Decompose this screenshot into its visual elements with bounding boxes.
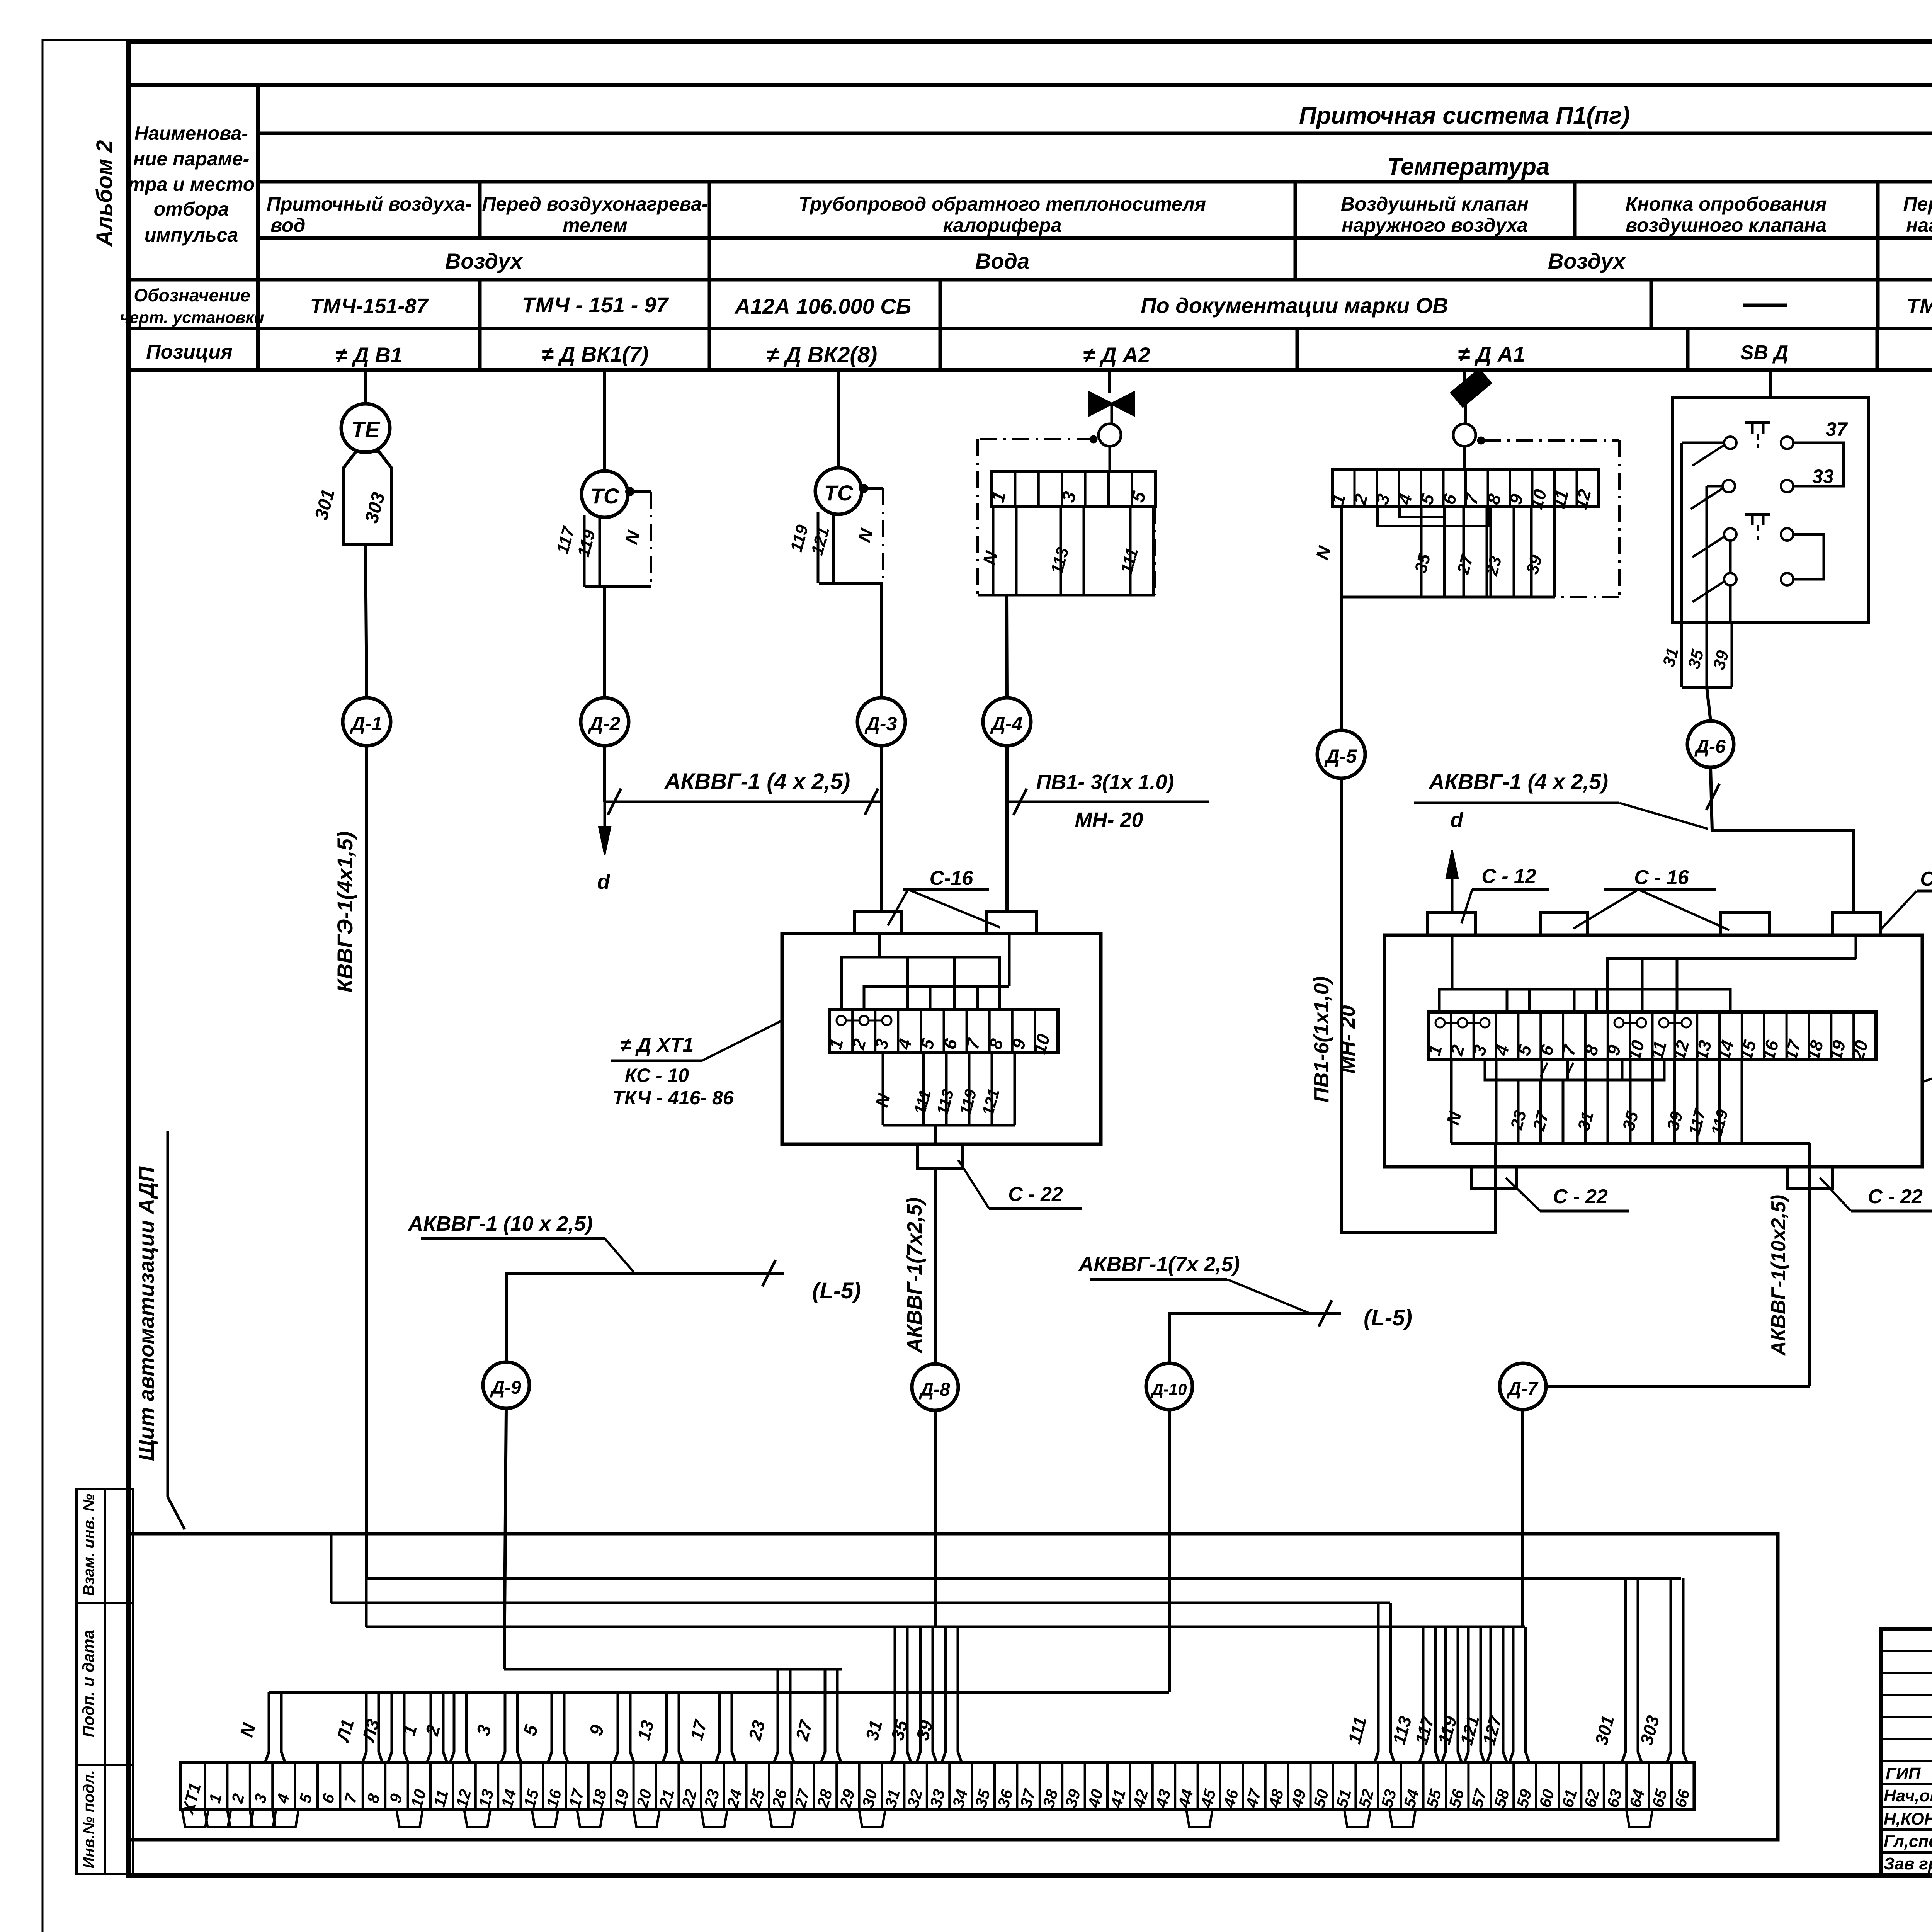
svg-text:Температура: Температура xyxy=(1387,153,1550,180)
XT2 bottom comb xyxy=(1451,1142,1810,1145)
A1 channel 27 xyxy=(1463,507,1465,597)
svg-text:Воздух: Воздух xyxy=(1548,249,1626,273)
TC1 N dash-dot wire xyxy=(633,490,651,493)
panel channel 17 xyxy=(718,1692,721,1752)
wire D-5 to XT2 route xyxy=(1341,778,1495,1233)
A2 bottom connector xyxy=(978,594,1155,597)
svg-text:ТКЧ - 416- 86: ТКЧ - 416- 86 xyxy=(612,1087,734,1109)
wire D-10 down xyxy=(1168,1410,1171,1692)
svg-text:Д-8: Д-8 xyxy=(918,1379,950,1400)
circle D-8 xyxy=(912,1364,958,1410)
SB internal wiring xyxy=(1682,442,1724,444)
XT2 bottom gland 2 xyxy=(1787,1167,1832,1189)
svg-text:≠ Д А2: ≠ Д А2 xyxy=(1083,343,1150,367)
svg-text:А12А 106.000 СБ: А12А 106.000 СБ xyxy=(734,294,912,318)
svg-text:d: d xyxy=(597,870,611,893)
XT1 channel 119 xyxy=(991,1053,993,1125)
svg-text:ПВ1-6(1х1,0): ПВ1-6(1х1,0) xyxy=(1310,976,1333,1103)
svg-text:ТМЧ - 151 - 97: ТМЧ - 151 - 97 xyxy=(522,293,669,317)
label C-22 XT2 right xyxy=(1820,1178,1851,1211)
svg-text:ТМЧ-151-87: ТМЧ-151-87 xyxy=(310,294,429,318)
TC2 terminals 119 121 xyxy=(817,512,820,583)
svg-text:≠ Д ХТ1: ≠ Д ХТ1 xyxy=(620,1034,694,1056)
XT2 comb upper A xyxy=(1451,935,1454,989)
svg-text:Вода: Вода xyxy=(975,249,1029,273)
wire from table to TC1 xyxy=(603,370,606,472)
side box Inv N podl xyxy=(77,1765,105,1874)
svg-text:Д-1: Д-1 xyxy=(350,713,383,735)
svg-text:С - 12: С - 12 xyxy=(1481,865,1536,888)
svg-text:Гл,спец,: Гл,спец, xyxy=(1884,1832,1932,1851)
circle D-7 xyxy=(1500,1363,1546,1410)
TC2 bottom connector xyxy=(819,582,883,585)
thermowell pocket xyxy=(343,451,392,545)
svg-text:Д-6: Д-6 xyxy=(1694,736,1726,757)
svg-text:наружного воздуха: наружного воздуха xyxy=(1342,214,1528,236)
A2 terminal strip xyxy=(992,472,1155,507)
svg-text:Взам. инв. №: Взам. инв. № xyxy=(80,1494,97,1596)
signal table grid xyxy=(128,83,1932,87)
XT2 channel 39 xyxy=(1673,1060,1676,1143)
panel channel L1 xyxy=(365,1692,368,1752)
svg-text:SB Д: SB Д xyxy=(1740,342,1788,364)
wire XT2 right cable down xyxy=(1808,1143,1811,1386)
panel channel 303 xyxy=(1670,1578,1672,1752)
circle D-1 xyxy=(343,698,391,746)
side box Podp i data xyxy=(77,1603,105,1765)
svg-text:нагревателем: нагревателем xyxy=(1906,214,1932,236)
A1 channel 23 xyxy=(1490,507,1492,597)
TC2 N dash-dot wire xyxy=(867,487,883,490)
solenoid stem xyxy=(1464,402,1467,424)
wire D-3 to XT1 gland xyxy=(880,746,883,911)
XT1 channel N xyxy=(882,1053,884,1125)
XT2 channel 27 xyxy=(1562,1080,1565,1143)
svg-text:Инв.№ подл.: Инв.№ подл. xyxy=(80,1770,97,1869)
svg-text:Д-3: Д-3 xyxy=(864,713,897,735)
XT2 gland 3 xyxy=(1720,913,1769,935)
wire TC2 to D-3 xyxy=(880,583,883,698)
svg-text:Д-2: Д-2 xyxy=(588,713,621,735)
panel channel 23 xyxy=(777,1669,779,1752)
panel channel 119 xyxy=(1467,1627,1470,1752)
svg-text:воздушного клапана: воздушного клапана xyxy=(1626,214,1827,236)
A1 terminal strip 12 xyxy=(1332,470,1599,507)
junction box XT2 xyxy=(1384,935,1922,1167)
A1 jumper loops below xyxy=(1400,507,1444,517)
svg-text:С - 22: С - 22 xyxy=(1553,1185,1608,1208)
svg-text:Позиция: Позиция xyxy=(146,341,232,363)
XT2 gland 2 xyxy=(1540,913,1588,935)
XT1 comb from gland2 xyxy=(1008,934,1011,986)
XT2 lower comb xyxy=(1485,1060,1664,1080)
svg-text:ТС: ТС xyxy=(590,484,620,508)
svg-text:ГИП: ГИП xyxy=(1886,1764,1921,1783)
XT1 comb from gland1 xyxy=(878,934,881,957)
panel bus B3 xyxy=(365,1578,368,1627)
wire from table to solenoid xyxy=(1463,370,1466,381)
SB contact row2 xyxy=(1723,480,1735,492)
panel channel 35 xyxy=(919,1627,922,1752)
SB exit channels 31 35 39 xyxy=(1680,622,1683,687)
svg-text:≠ Д ВК1(7): ≠ Д ВК1(7) xyxy=(542,342,649,366)
junction box XT1 xyxy=(782,934,1101,1144)
svg-text:АКВВГ-1(7х2,5): АКВВГ-1(7х2,5) xyxy=(903,1197,926,1354)
svg-text:вод: вод xyxy=(270,214,305,236)
panel bus B4 xyxy=(504,1668,842,1671)
panel channel 1 xyxy=(430,1692,432,1752)
wire D-10 up and right xyxy=(1169,1313,1341,1363)
A1 boundary dot xyxy=(1478,437,1484,444)
A1 channel N wire xyxy=(1340,507,1343,731)
side box Vzam inv N xyxy=(77,1489,105,1603)
panel channel N xyxy=(268,1692,270,1752)
svg-text:Д-4: Д-4 xyxy=(990,713,1023,735)
label C-22 XT2 left xyxy=(1506,1178,1540,1211)
wire from table to valve xyxy=(1108,370,1111,393)
wire TC1 to D-2 xyxy=(603,587,606,698)
circle D-9 xyxy=(483,1362,529,1408)
svg-text:Трубопровод обратного тепл: Трубопровод обратного теплоносителя xyxy=(799,193,1206,215)
svg-text:Нач,отд.: Нач,отд. xyxy=(1884,1786,1932,1805)
XT2 channel 119 xyxy=(1741,1060,1743,1143)
XT2 gland 4 xyxy=(1833,913,1880,935)
valve actuator stem xyxy=(1111,404,1113,424)
svg-text:По документации марки ОВ: По документации марки ОВ xyxy=(1141,293,1448,318)
A2 channel N xyxy=(992,507,995,595)
A1 channel 35 xyxy=(1420,507,1423,597)
wire from table to SB box xyxy=(1769,370,1772,398)
wire D-7 down xyxy=(1521,1410,1524,1627)
panel strip feet xyxy=(182,1810,208,1827)
svg-text:Д-10: Д-10 xyxy=(1150,1380,1187,1398)
wire XT1 to D-8 xyxy=(934,1125,937,1144)
valve symbol xyxy=(1090,393,1112,415)
wire SB to D-6 xyxy=(1707,687,1711,721)
A2 channel 113 xyxy=(1060,507,1062,595)
svg-text:Приточный воздуха-: Приточный воздуха- xyxy=(267,193,472,215)
panel channel 117 xyxy=(1444,1627,1447,1752)
wire XT2 N down xyxy=(1494,1143,1497,1189)
panel channel 301 xyxy=(1624,1578,1627,1752)
svg-text:отбора: отбора xyxy=(154,198,229,220)
svg-text:Кнопка опробования: Кнопка опробования xyxy=(1626,193,1827,215)
XT2 jumper circles 1-3 xyxy=(1435,1018,1445,1027)
wire actuator to strip xyxy=(1109,446,1111,472)
svg-text:Обозначение: Обозначение xyxy=(134,285,250,305)
svg-text:d: d xyxy=(1451,808,1464,832)
svg-text:≠ Д ВК2(8): ≠ Д ВК2(8) xyxy=(767,342,878,367)
svg-text:ТМЧ - 142 - 87: ТМЧ - 142 - 87 xyxy=(1906,294,1932,318)
TC1 bottom connector xyxy=(585,585,651,588)
circle D-5 xyxy=(1317,730,1365,778)
wire A2 to D-4 xyxy=(1007,595,1007,698)
svg-text:импульса: импульса xyxy=(145,224,238,246)
panel channel 31 xyxy=(894,1627,896,1752)
XT1 jumper circles 1-3 xyxy=(837,1016,846,1025)
XT1 channel 121 xyxy=(1014,1053,1016,1125)
svg-text:Воздух: Воздух xyxy=(445,249,524,273)
svg-text:АКВВГ-1 (10 х 2,5): АКВВГ-1 (10 х 2,5) xyxy=(407,1212,592,1235)
wire D-7 right to cable xyxy=(1546,1385,1810,1388)
XT2 channel 117 xyxy=(1718,1060,1721,1143)
svg-text:АКВВГ-1 (4 х 2,5): АКВВГ-1 (4 х 2,5) xyxy=(664,769,850,794)
panel channel 9 xyxy=(617,1692,619,1752)
svg-text:≠ Д А1: ≠ Д А1 xyxy=(1458,342,1525,366)
svg-text:ТС: ТС xyxy=(824,481,854,505)
SB mushroom button 2 xyxy=(1745,513,1770,516)
SB contact row4 xyxy=(1724,573,1736,585)
panel channel 111 xyxy=(1377,1603,1380,1752)
sensor TC2 xyxy=(815,468,862,514)
solenoid actuator tilted xyxy=(1450,368,1492,408)
XT2 gland 1 xyxy=(1428,913,1475,935)
XT2 channel N xyxy=(1450,1060,1453,1143)
svg-text:КВВГЭ-1(4х1,5): КВВГЭ-1(4х1,5) xyxy=(333,831,357,992)
XT1 terminal strip xyxy=(830,1010,1058,1053)
panel bus B5 xyxy=(269,1691,1169,1694)
XT2 channel 23 xyxy=(1517,1080,1520,1143)
TC1 N contact dot xyxy=(626,488,633,495)
svg-text:тра и место: тра и место xyxy=(128,173,255,195)
panel channel 39 xyxy=(944,1627,947,1752)
svg-text:ние параме-: ние параме- xyxy=(133,148,250,170)
A2 channel 111 xyxy=(1129,507,1132,595)
solenoid head circle xyxy=(1453,424,1476,446)
XT2 comb upper B from gland4 xyxy=(1855,935,1857,959)
circle D-2 xyxy=(581,698,629,746)
svg-text:АКВВГ-1(10х2,5): АКВВГ-1(10х2,5) xyxy=(1767,1195,1790,1356)
svg-text:ТЕ: ТЕ xyxy=(351,417,381,442)
svg-text:Д-9: Д-9 xyxy=(490,1378,521,1398)
A1 boundary dash-dot right xyxy=(1484,439,1619,442)
circle D-10 xyxy=(1146,1363,1192,1410)
wire TE to D-1 xyxy=(366,545,367,698)
svg-text:Щит автоматизации АДП: Щит автоматизации АДП xyxy=(134,1166,158,1461)
XT2 channel 31 xyxy=(1584,1060,1587,1143)
svg-text:АКВВГ-1 (4 х 2,5): АКВВГ-1 (4 х 2,5) xyxy=(1428,769,1608,794)
sensor TE xyxy=(341,404,390,452)
svg-text:С - 22: С - 22 xyxy=(1008,1183,1063,1206)
XT1 channel 111 xyxy=(945,1053,948,1125)
wire D-1 down to panel xyxy=(367,746,1681,1578)
svg-text:Альбом 2: Альбом 2 xyxy=(92,140,117,247)
panel channel 127 xyxy=(1512,1627,1515,1752)
XT2 bottom gland 1 xyxy=(1471,1167,1517,1189)
circle D-6 xyxy=(1687,721,1734,767)
svg-text:37: 37 xyxy=(1826,418,1848,440)
title block left grid xyxy=(1881,1650,1932,1652)
svg-text:33: 33 xyxy=(1812,466,1834,487)
A1 bottom connector xyxy=(1341,596,1555,599)
wire D-9 up and right xyxy=(506,1273,784,1362)
svg-text:(L-5): (L-5) xyxy=(812,1278,861,1303)
svg-text:С - 22: С - 22 xyxy=(1868,1185,1923,1208)
panel channel L3 xyxy=(391,1692,393,1752)
svg-text:Перед воздухонагрева-: Перед воздухонагрева- xyxy=(482,193,708,215)
svg-text:телем: телем xyxy=(563,214,627,236)
panel channel 3 xyxy=(504,1692,507,1752)
circle D-4 xyxy=(983,698,1031,746)
svg-text:МН- 20: МН- 20 xyxy=(1075,808,1143,832)
svg-text:Наименова-: Наименова- xyxy=(134,122,248,144)
wire D-6 to XT2 xyxy=(1711,767,1854,914)
A2 boundary dash-dot left xyxy=(1090,436,1097,442)
svg-text:Н,КОНТР: Н,КОНТР xyxy=(1884,1810,1932,1828)
svg-text:Д-5: Д-5 xyxy=(1324,745,1357,767)
XT1 gland 2 xyxy=(987,911,1037,934)
svg-text:КС - 10: КС - 10 xyxy=(625,1065,689,1086)
svg-text:черт. установки: черт. установки xyxy=(120,308,264,327)
XT2 terminal strip 20 xyxy=(1429,1012,1876,1060)
XT1 bottom gland xyxy=(918,1144,963,1168)
XT2 jumper circles 9-10 xyxy=(1614,1018,1624,1027)
arrow to d xyxy=(604,802,606,831)
svg-text:С - 12: С - 12 xyxy=(1920,868,1932,890)
panel channel 27 xyxy=(824,1669,827,1752)
panel box xyxy=(128,1534,1778,1840)
svg-text:Подп. и дата: Подп. и дата xyxy=(79,1630,97,1737)
panel channel 113 xyxy=(1422,1627,1425,1752)
TC2 N contact dot xyxy=(860,485,867,492)
XT1 channel 113 xyxy=(968,1053,971,1125)
svg-text:ПВ1- 3(1х 1.0): ПВ1- 3(1х 1.0) xyxy=(1036,770,1174,794)
SB contact row1 xyxy=(1724,437,1736,449)
circle D-3 xyxy=(857,698,905,746)
title block main xyxy=(1881,1629,1932,1876)
svg-text:Приточная система П1(пг): Приточная система П1(пг) xyxy=(1299,102,1630,129)
svg-text:≠ Д В1: ≠ Д В1 xyxy=(335,343,403,367)
svg-text:калорифера: калорифера xyxy=(943,214,1062,236)
XT2 jumper circles 11-12 xyxy=(1659,1018,1668,1027)
cable line D2-D3 xyxy=(603,746,606,802)
panel channel 2 xyxy=(453,1692,456,1752)
cable line PV1-3 xyxy=(1005,746,1009,802)
wire solenoid to strip xyxy=(1463,446,1466,470)
XT1 bottom comb xyxy=(883,1124,1015,1127)
svg-text:Зав гр.: Зав гр. xyxy=(1884,1854,1932,1873)
panel channel 13 xyxy=(665,1692,668,1752)
svg-text:Д-7: Д-7 xyxy=(1506,1379,1539,1399)
A1 channel 39 xyxy=(1530,507,1533,597)
valve actuator head xyxy=(1099,424,1121,446)
svg-text:С - 16: С - 16 xyxy=(1634,866,1689,889)
svg-text:Воздушный клапан: Воздушный клапан xyxy=(1341,193,1529,215)
svg-text:АКВВГ-1(7х 2,5): АКВВГ-1(7х 2,5) xyxy=(1078,1253,1240,1276)
panel channel 5 xyxy=(551,1692,553,1752)
TC1 terminals 117 119 xyxy=(583,515,586,587)
SB contact row3 xyxy=(1724,528,1736,541)
svg-text:(L-5): (L-5) xyxy=(1364,1305,1412,1330)
wire D-4 to XT1 gland xyxy=(1005,802,1009,911)
wire D-8 down xyxy=(935,1410,935,1627)
panel terminal strip XT1 xyxy=(181,1763,1694,1810)
wire D-9 down xyxy=(504,1408,506,1669)
panel channel 121 xyxy=(1490,1627,1492,1752)
XT2 channel 35 xyxy=(1629,1060,1632,1143)
svg-text:Перед воздуха-: Перед воздуха- xyxy=(1903,193,1932,215)
XT1 gland 1 xyxy=(855,911,901,934)
svg-text:С-16: С-16 xyxy=(930,867,974,889)
arrow d up xyxy=(1451,862,1454,913)
sensor TC1 xyxy=(582,471,628,517)
panel bus B2 xyxy=(330,1534,333,1603)
SB mushroom button 1 xyxy=(1745,421,1770,424)
wire from table to TE xyxy=(364,370,367,404)
push button box SB xyxy=(1672,398,1869,622)
wire from table to TC2 xyxy=(837,370,840,469)
